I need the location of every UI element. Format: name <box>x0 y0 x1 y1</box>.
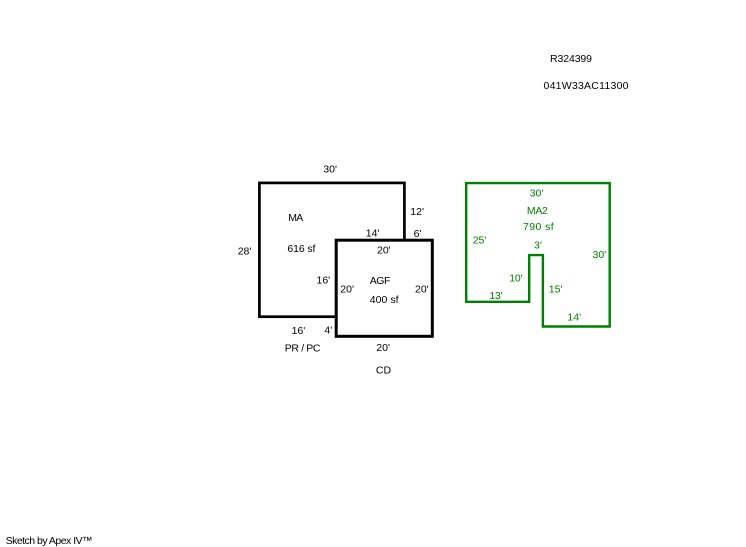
svg-text:MA: MA <box>288 212 303 224</box>
svg-text:20': 20' <box>376 342 390 354</box>
svg-text:4': 4' <box>324 325 332 337</box>
svg-text:20': 20' <box>377 245 391 257</box>
svg-text:13': 13' <box>489 290 502 302</box>
svg-text:10': 10' <box>509 273 522 285</box>
svg-text:R324399: R324399 <box>550 53 592 65</box>
svg-text:041W33AC11300: 041W33AC11300 <box>544 80 629 92</box>
svg-text:30': 30' <box>530 187 544 199</box>
svg-text:14': 14' <box>366 227 380 239</box>
svg-text:790 sf: 790 sf <box>523 221 554 233</box>
svg-text:16': 16' <box>317 275 331 287</box>
svg-text:30': 30' <box>593 249 607 261</box>
svg-text:PR / PC: PR / PC <box>285 343 321 355</box>
svg-text:20': 20' <box>415 284 429 296</box>
svg-text:3': 3' <box>534 240 542 252</box>
svg-text:15': 15' <box>549 284 563 296</box>
svg-text:CD: CD <box>376 365 392 377</box>
svg-text:AGF: AGF <box>370 275 391 287</box>
svg-text:Sketch by Apex IV™: Sketch by Apex IV™ <box>6 535 93 547</box>
svg-text:14': 14' <box>567 311 581 323</box>
svg-text:MA2: MA2 <box>527 205 548 217</box>
svg-text:6': 6' <box>414 228 422 240</box>
svg-text:28': 28' <box>238 246 252 258</box>
svg-text:16': 16' <box>292 325 306 337</box>
svg-text:30': 30' <box>323 164 337 176</box>
svg-text:400 sf: 400 sf <box>370 294 399 306</box>
svg-text:25': 25' <box>473 235 487 247</box>
svg-text:12': 12' <box>410 206 424 218</box>
svg-text:20': 20' <box>340 284 354 296</box>
svg-text:616 sf: 616 sf <box>287 243 315 255</box>
